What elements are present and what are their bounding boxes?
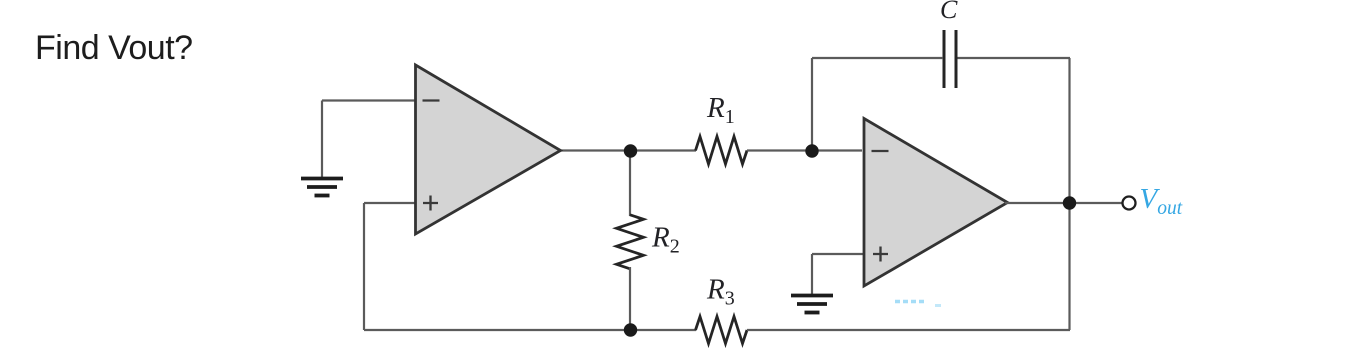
wire: top feedback rail left of capacitor [812, 57, 943, 59]
wire: down to ground G1 [321, 101, 323, 178]
wire: R2 bottom lead [629, 267, 631, 330]
U2 minus sign [872, 150, 889, 152]
wire: down left side to bottom rail [363, 203, 365, 330]
node: junction dot at R2/R3 bottom [624, 323, 637, 336]
node: junction dot at R1/R2 (node A) [624, 144, 637, 157]
resistor R1 zigzag [696, 137, 748, 165]
terminal: open circle Vout [1123, 197, 1136, 210]
node: junction dot at U2 inverting input [805, 144, 818, 157]
node: junction dot at output [1063, 196, 1076, 209]
wire: top feedback rail right of capacitor [957, 57, 1070, 59]
wire: right vertical (output node to top feedback and bottom rail) [1068, 58, 1070, 330]
wire: U2 plus input to left [812, 253, 864, 255]
wire: feedback down to U2 inverting node [811, 58, 813, 151]
wire: bottom rail left of R3 [364, 329, 696, 331]
faint artifact dashes [895, 300, 924, 304]
wire: R2 top lead [629, 151, 631, 217]
wire: bottom rail right of R3 [747, 329, 1070, 331]
ground G2 [791, 296, 833, 313]
wire: U2 output to node [1005, 202, 1070, 204]
title text "Find Vout?" [35, 29, 193, 68]
U1 minus sign [423, 99, 440, 101]
wire: U1 plus input to left [364, 202, 416, 204]
resistor R2 zigzag [617, 215, 644, 269]
wire: U1 output to node A [558, 149, 696, 151]
op-amp U2 [864, 119, 1008, 287]
svg-text:R1: R1 [706, 92, 735, 128]
wire: R1 right to U2 minus input [747, 149, 862, 151]
svg-text:C: C [940, 0, 958, 24]
capacitor C plates [944, 30, 956, 88]
svg-text:Vout: Vout [1140, 183, 1183, 219]
op-amp U1 [416, 65, 561, 234]
wire: U1 minus input to left [322, 99, 416, 101]
U1 plus sign [423, 196, 438, 211]
U2 plus sign [873, 247, 888, 262]
wire: down to ground G2 [811, 254, 813, 294]
wire: output node to terminal [1070, 202, 1122, 204]
resistor R3 zigzag [696, 317, 748, 344]
svg-text:R2: R2 [651, 222, 680, 258]
ground G1 [301, 179, 343, 196]
svg-text:R3: R3 [706, 274, 735, 310]
